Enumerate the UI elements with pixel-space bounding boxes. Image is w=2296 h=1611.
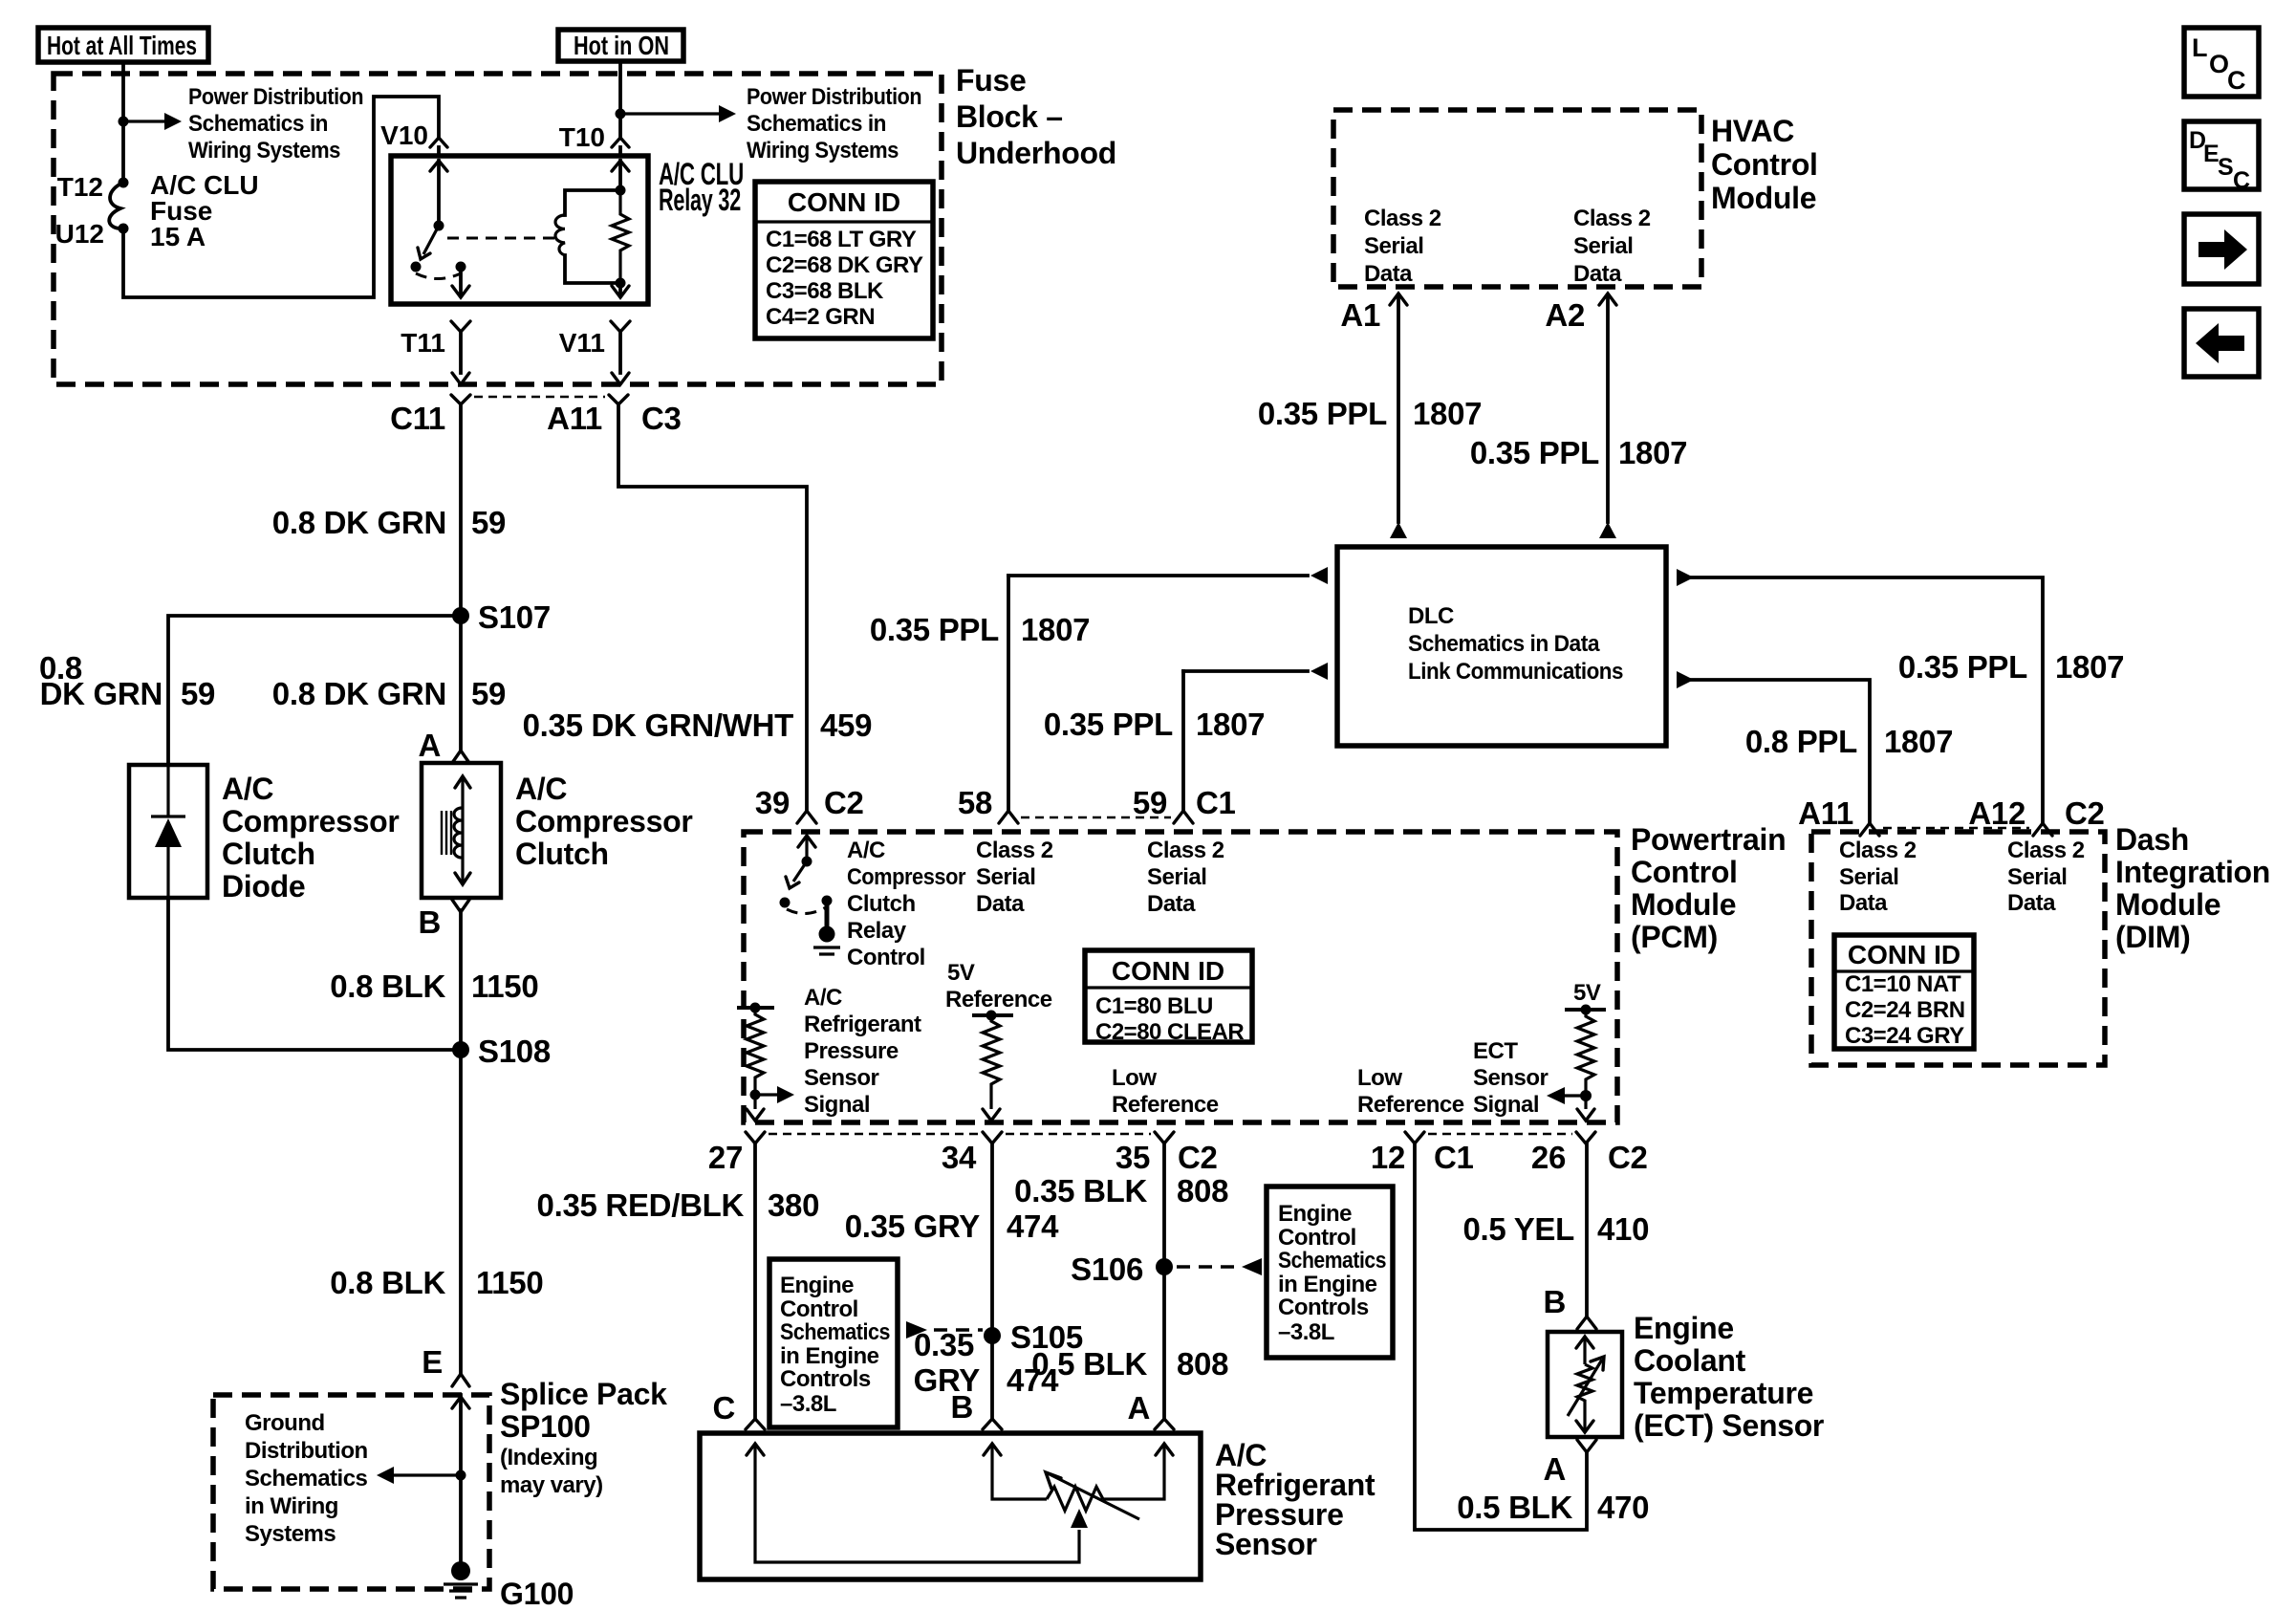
svg-text:Data: Data xyxy=(976,891,1025,917)
svg-text:A/C: A/C xyxy=(222,772,273,806)
svg-text:1807: 1807 xyxy=(1413,396,1482,431)
svg-text:Link Communications: Link Communications xyxy=(1408,659,1623,685)
svg-text:0.35 PPL: 0.35 PPL xyxy=(1470,435,1599,470)
svg-text:Reference: Reference xyxy=(945,987,1052,1012)
svg-text:–3.8L: –3.8L xyxy=(1278,1319,1334,1345)
svg-text:Class 2: Class 2 xyxy=(1839,838,1917,863)
svg-text:C1: C1 xyxy=(1196,785,1236,820)
svg-text:59: 59 xyxy=(471,676,506,711)
svg-text:(ECT) Sensor: (ECT) Sensor xyxy=(1634,1408,1824,1443)
svg-text:Pressure: Pressure xyxy=(804,1038,899,1064)
svg-text:(PCM): (PCM) xyxy=(1631,920,1718,954)
svg-text:Class 2: Class 2 xyxy=(2007,838,2085,863)
svg-text:0.35 DK GRN/WHT: 0.35 DK GRN/WHT xyxy=(523,708,794,743)
svg-text:E: E xyxy=(422,1344,443,1380)
svg-text:Serial: Serial xyxy=(1147,864,1206,890)
svg-text:C2=24 BRN: C2=24 BRN xyxy=(1845,997,1965,1023)
svg-text:DLC: DLC xyxy=(1408,603,1454,629)
svg-text:C: C xyxy=(712,1390,735,1426)
svg-text:459: 459 xyxy=(820,708,872,743)
svg-text:Dash: Dash xyxy=(2115,822,2189,857)
svg-text:Diode: Diode xyxy=(222,869,305,903)
svg-text:1150: 1150 xyxy=(476,1265,543,1300)
svg-text:380: 380 xyxy=(768,1187,819,1223)
svg-text:B: B xyxy=(950,1389,973,1425)
svg-text:A/C: A/C xyxy=(804,985,842,1011)
svg-text:1807: 1807 xyxy=(1021,612,1090,647)
svg-text:5V: 5V xyxy=(1573,980,1601,1006)
svg-text:C3: C3 xyxy=(641,401,682,436)
svg-text:Distribution: Distribution xyxy=(245,1438,368,1464)
svg-text:0.5 YEL: 0.5 YEL xyxy=(1462,1211,1574,1247)
svg-text:Low: Low xyxy=(1112,1065,1157,1091)
svg-text:5V: 5V xyxy=(947,960,975,986)
svg-text:Reference: Reference xyxy=(1112,1092,1219,1118)
svg-text:Serial: Serial xyxy=(1364,233,1423,259)
svg-text:59: 59 xyxy=(1133,785,1167,820)
svg-text:A1: A1 xyxy=(1340,297,1380,333)
svg-text:(Indexing: (Indexing xyxy=(500,1445,597,1470)
svg-text:Serial: Serial xyxy=(976,864,1035,890)
svg-text:C1=68 LT GRY: C1=68 LT GRY xyxy=(766,227,917,252)
svg-text:C4=2 GRN: C4=2 GRN xyxy=(766,304,875,330)
svg-text:0.8 DK GRN: 0.8 DK GRN xyxy=(272,676,446,711)
svg-text:C2: C2 xyxy=(1178,1140,1218,1175)
svg-text:27: 27 xyxy=(708,1140,743,1175)
svg-text:B: B xyxy=(418,904,441,940)
svg-text:L: L xyxy=(2192,33,2208,62)
svg-text:Schematics in: Schematics in xyxy=(747,111,886,137)
svg-text:DK GRN: DK GRN xyxy=(40,676,162,711)
svg-text:C1=10 NAT: C1=10 NAT xyxy=(1845,971,1961,997)
svg-text:0.35 PPL: 0.35 PPL xyxy=(1258,396,1387,431)
svg-text:Data: Data xyxy=(1573,261,1622,287)
svg-text:Relay: Relay xyxy=(847,918,907,944)
svg-text:T12: T12 xyxy=(57,172,103,202)
svg-text:C11: C11 xyxy=(390,401,445,436)
svg-text:1807: 1807 xyxy=(1618,435,1687,470)
svg-text:Signal: Signal xyxy=(804,1092,870,1118)
svg-text:may vary): may vary) xyxy=(500,1472,603,1498)
svg-text:0.8 DK GRN: 0.8 DK GRN xyxy=(272,505,446,540)
svg-text:V11: V11 xyxy=(559,328,605,358)
svg-text:Underhood: Underhood xyxy=(956,136,1116,170)
svg-text:C2: C2 xyxy=(824,785,864,820)
svg-text:B: B xyxy=(1543,1284,1566,1319)
svg-text:Wiring Systems: Wiring Systems xyxy=(188,138,340,163)
svg-text:Reference: Reference xyxy=(1357,1092,1464,1118)
svg-text:Schematics: Schematics xyxy=(780,1319,890,1345)
svg-text:1150: 1150 xyxy=(471,969,538,1004)
svg-text:in Wiring: in Wiring xyxy=(245,1493,338,1519)
svg-text:C3=24 GRY: C3=24 GRY xyxy=(1845,1023,1964,1049)
svg-text:Temperature: Temperature xyxy=(1634,1376,1813,1410)
svg-text:Data: Data xyxy=(1364,261,1413,287)
svg-text:in Engine: in Engine xyxy=(780,1343,879,1369)
svg-text:470: 470 xyxy=(1597,1490,1649,1525)
svg-text:Power Distribution: Power Distribution xyxy=(188,84,363,110)
svg-text:35: 35 xyxy=(1116,1140,1150,1175)
svg-text:C1=80 BLU: C1=80 BLU xyxy=(1095,993,1213,1019)
svg-text:HVAC: HVAC xyxy=(1711,114,1794,148)
svg-text:Schematics in Data: Schematics in Data xyxy=(1408,631,1600,657)
svg-text:Coolant: Coolant xyxy=(1634,1343,1746,1378)
svg-text:C2=80 CLEAR: C2=80 CLEAR xyxy=(1095,1019,1244,1045)
svg-text:Schematics: Schematics xyxy=(1278,1248,1386,1274)
svg-text:Block –: Block – xyxy=(956,99,1063,134)
svg-text:Serial: Serial xyxy=(2007,864,2067,890)
svg-text:Serial: Serial xyxy=(1839,864,1898,890)
svg-text:Class 2: Class 2 xyxy=(1573,206,1651,231)
svg-text:A: A xyxy=(1543,1451,1566,1487)
svg-text:C2=68 DK GRY: C2=68 DK GRY xyxy=(766,252,923,278)
svg-text:Class 2: Class 2 xyxy=(1364,206,1441,231)
svg-text:Clutch: Clutch xyxy=(222,837,315,871)
svg-text:410: 410 xyxy=(1597,1211,1649,1247)
svg-text:Signal: Signal xyxy=(1473,1092,1539,1118)
svg-text:–3.8L: –3.8L xyxy=(780,1391,836,1417)
svg-text:0.35 PPL: 0.35 PPL xyxy=(1898,649,2027,685)
svg-text:0.35 RED/BLK: 0.35 RED/BLK xyxy=(537,1187,745,1223)
svg-text:Clutch: Clutch xyxy=(515,837,609,871)
svg-text:Controls: Controls xyxy=(780,1366,871,1392)
svg-text:A: A xyxy=(1127,1390,1150,1426)
svg-text:A11: A11 xyxy=(547,401,602,436)
svg-text:Relay 32: Relay 32 xyxy=(659,183,741,217)
svg-text:0.35 GRY: 0.35 GRY xyxy=(845,1208,981,1244)
svg-text:C: C xyxy=(2233,167,2250,194)
svg-text:S106: S106 xyxy=(1071,1252,1143,1287)
svg-text:S: S xyxy=(2218,154,2234,181)
svg-text:Systems: Systems xyxy=(245,1521,336,1547)
svg-text:Hot in ON: Hot in ON xyxy=(574,31,669,60)
svg-text:A: A xyxy=(418,728,441,763)
svg-text:Schematics: Schematics xyxy=(245,1466,368,1491)
svg-text:Engine: Engine xyxy=(1634,1311,1734,1345)
svg-text:Schematics in: Schematics in xyxy=(188,111,328,137)
svg-text:808: 808 xyxy=(1177,1173,1228,1208)
svg-text:Compressor: Compressor xyxy=(222,804,400,838)
svg-text:0.35 PPL: 0.35 PPL xyxy=(870,612,999,647)
svg-text:808: 808 xyxy=(1177,1346,1228,1382)
svg-text:Module: Module xyxy=(1631,887,1736,922)
svg-text:Control: Control xyxy=(1711,147,1818,182)
svg-text:CONN ID: CONN ID xyxy=(1112,956,1224,986)
svg-text:G100: G100 xyxy=(500,1577,574,1611)
svg-text:S107: S107 xyxy=(478,599,551,635)
svg-text:0.5 BLK: 0.5 BLK xyxy=(1031,1346,1147,1382)
svg-text:Compressor: Compressor xyxy=(515,804,693,838)
svg-text:0.8 PPL: 0.8 PPL xyxy=(1745,724,1857,759)
svg-text:Refrigerant: Refrigerant xyxy=(804,1012,921,1037)
svg-text:59: 59 xyxy=(471,505,506,540)
svg-text:Control: Control xyxy=(847,945,925,970)
svg-text:T10: T10 xyxy=(559,122,605,152)
svg-text:Class 2: Class 2 xyxy=(1147,838,1224,863)
svg-text:Serial: Serial xyxy=(1573,233,1633,259)
svg-text:0.35: 0.35 xyxy=(914,1327,974,1362)
svg-text:Compressor: Compressor xyxy=(847,864,965,890)
svg-text:S108: S108 xyxy=(478,1034,551,1069)
svg-text:0.35 PPL: 0.35 PPL xyxy=(1044,707,1173,742)
svg-text:1807: 1807 xyxy=(2055,649,2124,685)
svg-text:C1: C1 xyxy=(1434,1140,1474,1175)
svg-text:O: O xyxy=(2209,50,2229,78)
svg-text:15 A: 15 A xyxy=(150,222,206,251)
svg-text:in Engine: in Engine xyxy=(1278,1272,1377,1297)
svg-text:Hot at All Times: Hot at All Times xyxy=(47,31,197,60)
svg-text:Engine: Engine xyxy=(780,1273,854,1298)
svg-text:Data: Data xyxy=(2007,890,2056,916)
svg-text:Clutch: Clutch xyxy=(847,891,916,917)
svg-text:V10: V10 xyxy=(380,120,428,150)
svg-text:A/C: A/C xyxy=(847,838,885,863)
svg-text:39: 39 xyxy=(755,785,790,820)
svg-text:C3=68 BLK: C3=68 BLK xyxy=(766,278,884,304)
svg-text:0.5 BLK: 0.5 BLK xyxy=(1457,1490,1572,1525)
svg-text:C: C xyxy=(2227,66,2246,95)
svg-text:58: 58 xyxy=(958,785,992,820)
svg-text:Control: Control xyxy=(1631,855,1738,889)
svg-text:ECT: ECT xyxy=(1473,1038,1518,1064)
svg-text:Sensor: Sensor xyxy=(804,1065,879,1091)
svg-text:0.8 BLK: 0.8 BLK xyxy=(330,969,445,1004)
svg-text:1807: 1807 xyxy=(1196,707,1265,742)
svg-text:C2: C2 xyxy=(2065,795,2105,831)
svg-text:Low: Low xyxy=(1357,1065,1402,1091)
svg-text:26: 26 xyxy=(1531,1140,1566,1175)
svg-text:Powertrain: Powertrain xyxy=(1631,822,1786,857)
svg-text:Controls: Controls xyxy=(1278,1295,1369,1320)
svg-text:Ground: Ground xyxy=(245,1410,325,1436)
svg-text:Power Distribution: Power Distribution xyxy=(747,84,921,110)
svg-text:Module: Module xyxy=(2115,887,2220,922)
svg-text:59: 59 xyxy=(181,676,215,711)
svg-text:CONN ID: CONN ID xyxy=(1848,940,1960,969)
svg-text:Sensor: Sensor xyxy=(1215,1527,1317,1561)
svg-text:Data: Data xyxy=(1147,891,1196,917)
svg-text:34: 34 xyxy=(942,1140,977,1175)
svg-text:Wiring Systems: Wiring Systems xyxy=(747,138,899,163)
svg-text:0.35 BLK: 0.35 BLK xyxy=(1014,1173,1147,1208)
svg-text:A11: A11 xyxy=(1798,795,1853,831)
svg-text:Fuse: Fuse xyxy=(956,63,1027,98)
svg-text:Control: Control xyxy=(780,1296,858,1322)
svg-text:12: 12 xyxy=(1371,1140,1405,1175)
svg-text:474: 474 xyxy=(1007,1208,1059,1244)
svg-text:CONN ID: CONN ID xyxy=(788,187,900,217)
svg-text:U12: U12 xyxy=(55,219,104,249)
svg-text:Splice Pack: Splice Pack xyxy=(500,1377,667,1411)
svg-text:Class 2: Class 2 xyxy=(976,838,1053,863)
svg-text:(DIM): (DIM) xyxy=(2115,920,2190,954)
svg-text:Integration: Integration xyxy=(2115,855,2270,889)
svg-text:SP100: SP100 xyxy=(500,1409,591,1444)
svg-text:T11: T11 xyxy=(401,328,445,358)
svg-text:A12: A12 xyxy=(1968,795,2025,831)
svg-text:Engine: Engine xyxy=(1278,1201,1352,1227)
svg-text:Module: Module xyxy=(1711,181,1816,215)
svg-text:C2: C2 xyxy=(1608,1140,1648,1175)
svg-text:1807: 1807 xyxy=(1884,724,1953,759)
svg-text:Data: Data xyxy=(1839,890,1888,916)
svg-text:A2: A2 xyxy=(1545,297,1585,333)
svg-text:Control: Control xyxy=(1278,1225,1356,1251)
svg-text:0.8 BLK: 0.8 BLK xyxy=(330,1265,445,1300)
svg-text:A/C: A/C xyxy=(515,772,567,806)
svg-text:Sensor: Sensor xyxy=(1473,1065,1549,1091)
